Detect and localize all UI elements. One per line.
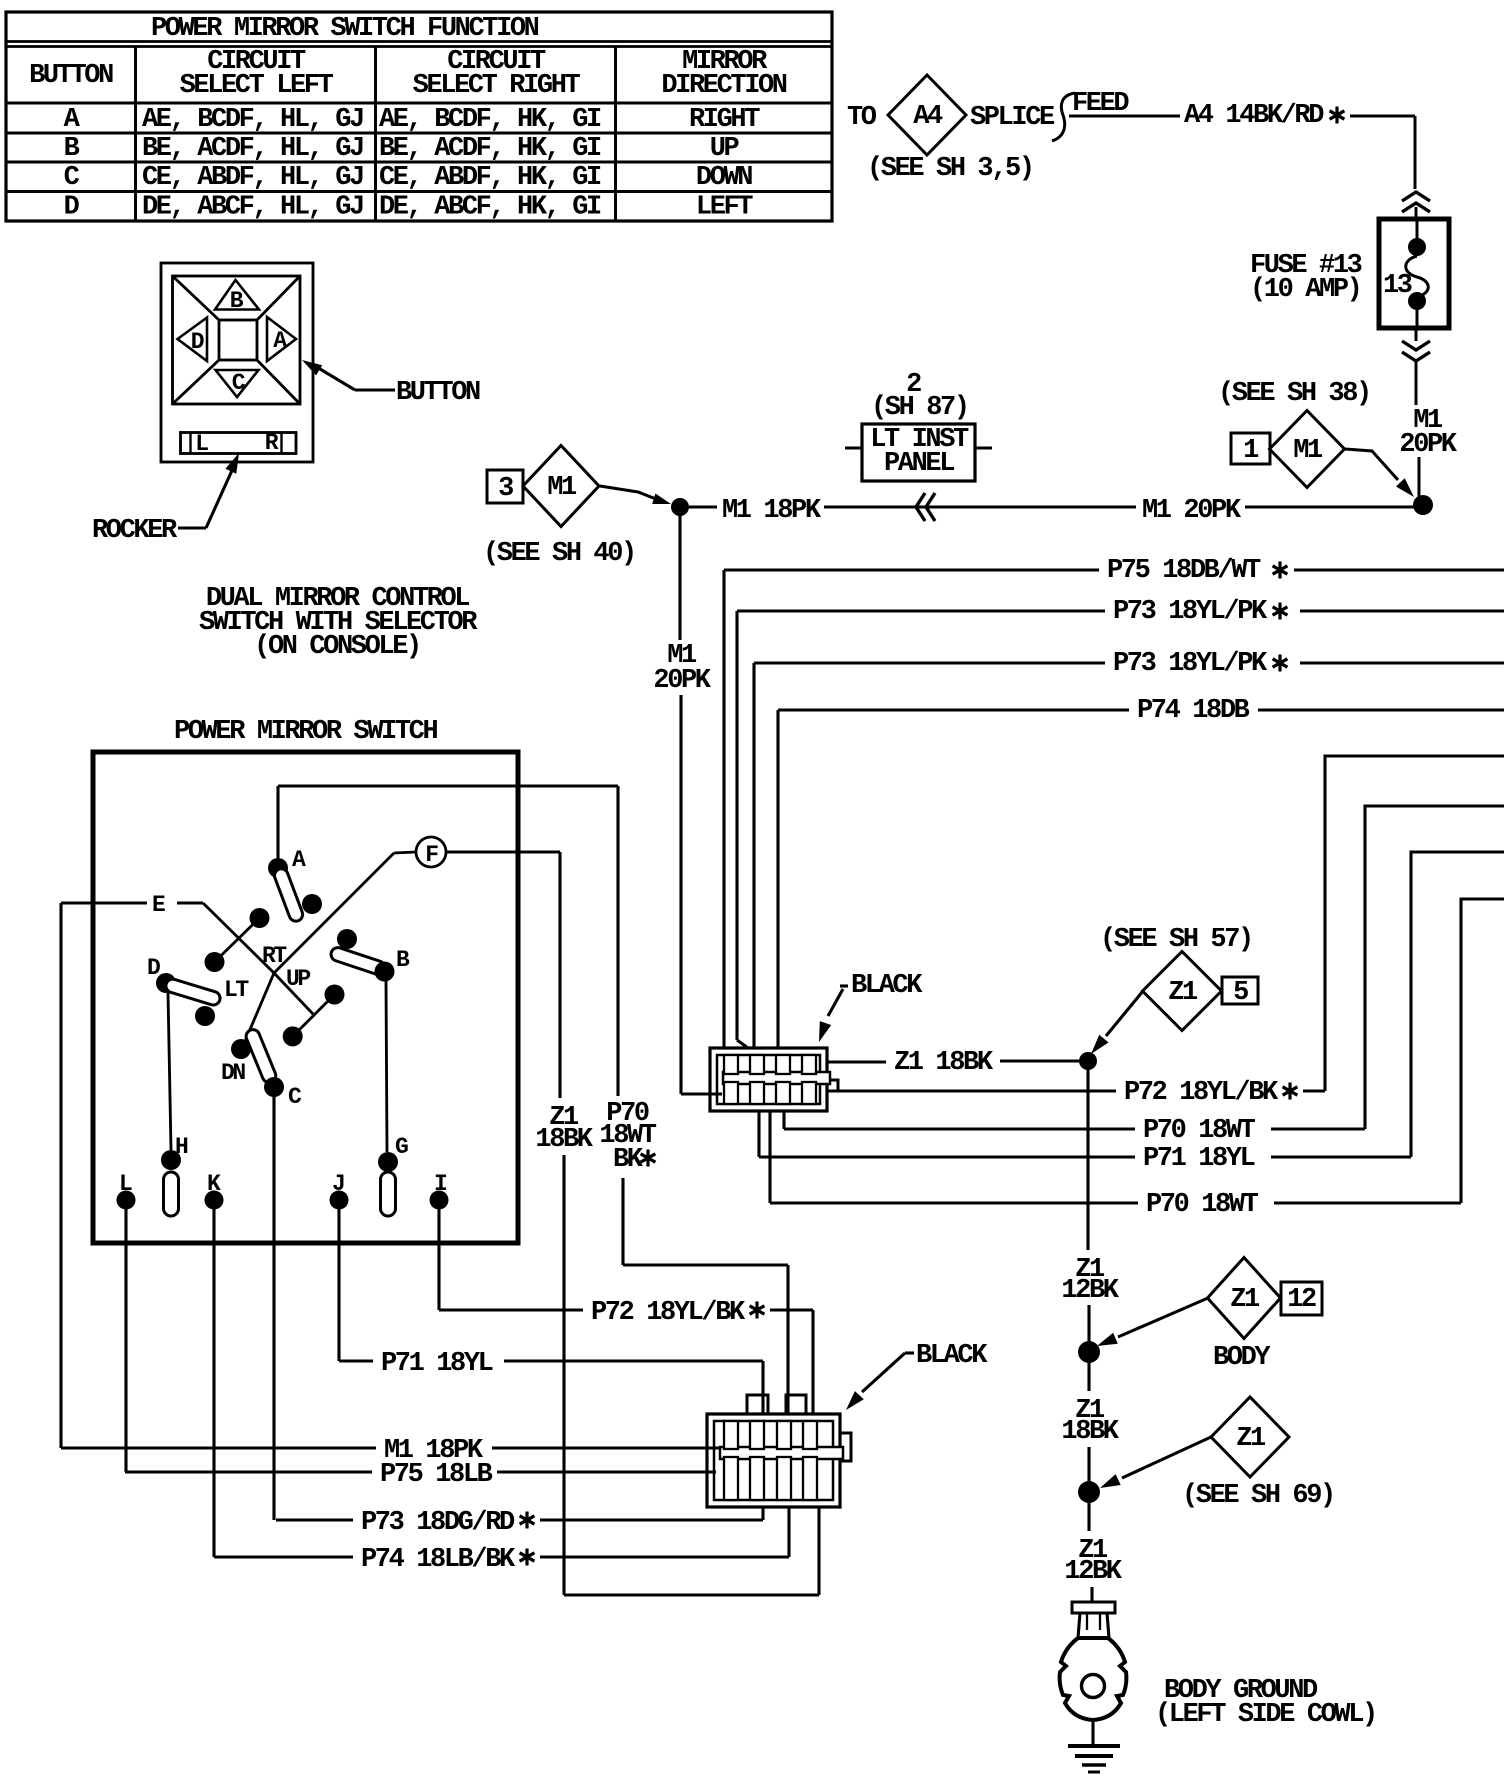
svg-text:E: E [152, 892, 165, 918]
svg-text:P70 18WT: P70 18WT [1146, 1190, 1259, 1220]
svg-text:DN: DN [221, 1060, 245, 1086]
svg-text:BUTTON: BUTTON [29, 61, 113, 91]
svg-text:A4 14BK/RD: A4 14BK/RD [1184, 101, 1324, 131]
svg-text:J: J [332, 1171, 344, 1197]
svg-text:BE, ACDF, HK, GI: BE, ACDF, HK, GI [379, 134, 601, 164]
svg-text:P71 18YL: P71 18YL [381, 1349, 493, 1379]
svg-text:DOWN: DOWN [696, 163, 752, 193]
svg-text:12BK: 12BK [1061, 1276, 1119, 1306]
svg-text:DE, ABCF, HL, GJ: DE, ABCF, HL, GJ [142, 193, 363, 223]
svg-text:13: 13 [1383, 271, 1412, 301]
svg-text:LEFT: LEFT [696, 193, 753, 223]
svg-text:20PK: 20PK [653, 666, 711, 696]
svg-text:H: H [175, 1134, 188, 1160]
svg-text:M1 18PK: M1 18PK [722, 496, 822, 526]
svg-text:Z1: Z1 [1230, 1285, 1260, 1315]
svg-text:P72 18YL/BK: P72 18YL/BK [1124, 1078, 1279, 1108]
svg-text:Z1: Z1 [1168, 978, 1198, 1008]
svg-text:LT: LT [224, 977, 249, 1003]
svg-text:ROCKER: ROCKER [92, 516, 178, 546]
svg-text:(SEE SH 38): (SEE SH 38) [1218, 379, 1370, 409]
svg-text:P74 18LB/BK: P74 18LB/BK [361, 1545, 516, 1575]
svg-text:P75 18DB/WT: P75 18DB/WT [1107, 556, 1261, 586]
svg-text:20PK: 20PK [1399, 430, 1457, 460]
svg-text:BE, ACDF, HL, GJ: BE, ACDF, HL, GJ [142, 134, 363, 164]
svg-text:CE, ABDF, HL, GJ: CE, ABDF, HL, GJ [142, 163, 363, 193]
svg-text:C: C [64, 163, 80, 193]
svg-text:I: I [434, 1171, 447, 1197]
svg-text:(LEFT SIDE COWL): (LEFT SIDE COWL) [1155, 1700, 1376, 1730]
svg-text:3: 3 [498, 474, 513, 504]
svg-text:D: D [191, 329, 204, 355]
svg-text:(SEE SH 40): (SEE SH 40) [483, 539, 635, 569]
svg-text:P70 18WT: P70 18WT [1143, 1116, 1256, 1146]
svg-text:AE, BCDF, HL, GJ: AE, BCDF, HL, GJ [142, 105, 363, 135]
svg-text:P73 18YL/PK: P73 18YL/PK [1113, 597, 1268, 627]
svg-text:BLACK: BLACK [851, 971, 923, 1001]
svg-text:RIGHT: RIGHT [689, 105, 760, 135]
svg-text:SELECT LEFT: SELECT LEFT [180, 71, 334, 101]
svg-text:POWER MIRROR SWITCH: POWER MIRROR SWITCH [174, 717, 437, 747]
svg-text:B: B [64, 134, 80, 164]
svg-text:(SEE SH 57): (SEE SH 57) [1100, 925, 1252, 955]
svg-text:A4: A4 [913, 102, 943, 132]
svg-text:SELECT RIGHT: SELECT RIGHT [413, 71, 581, 101]
svg-text:12BK: 12BK [1064, 1557, 1122, 1587]
svg-text:P71 18YL: P71 18YL [1143, 1144, 1255, 1174]
svg-text:UP: UP [286, 966, 310, 992]
svg-text:18BK: 18BK [1061, 1417, 1119, 1447]
svg-text:G: G [395, 1134, 408, 1160]
svg-text:CE, ABDF, HK, GI: CE, ABDF, HK, GI [379, 163, 601, 193]
svg-text:PANEL: PANEL [884, 449, 954, 479]
svg-text:BUTTON: BUTTON [396, 378, 480, 408]
svg-text:(10 AMP): (10 AMP) [1250, 275, 1360, 305]
svg-text:M1 20PK: M1 20PK [1142, 496, 1242, 526]
svg-text:D: D [64, 193, 80, 223]
svg-text:1: 1 [1243, 436, 1259, 466]
svg-text:(SH 87): (SH 87) [871, 393, 968, 423]
svg-text:P72 18YL/BK: P72 18YL/BK [591, 1298, 746, 1328]
svg-text:DE, ABCF, HK, GI: DE, ABCF, HK, GI [379, 193, 601, 223]
svg-text:Z1 18BK: Z1 18BK [894, 1048, 994, 1078]
svg-text:RT: RT [262, 943, 287, 969]
svg-text:(SEE SH 3,5): (SEE SH 3,5) [867, 154, 1033, 184]
svg-text:BK: BK [613, 1145, 644, 1175]
svg-text:AE, BCDF, HK, GI: AE, BCDF, HK, GI [379, 105, 601, 135]
svg-text:(ON CONSOLE): (ON CONSOLE) [254, 632, 420, 662]
svg-text:P73 18YL/PK: P73 18YL/PK [1113, 649, 1268, 679]
svg-text:12: 12 [1287, 1285, 1316, 1315]
svg-text:P75 18LB: P75 18LB [380, 1460, 493, 1490]
svg-text:18BK: 18BK [535, 1125, 593, 1155]
svg-text:P74 18DB: P74 18DB [1137, 696, 1250, 726]
svg-text:UP: UP [710, 134, 740, 164]
svg-text:BODY: BODY [1213, 1343, 1271, 1373]
svg-text:M1: M1 [547, 473, 577, 503]
svg-text:L: L [195, 431, 208, 457]
svg-text:BLACK: BLACK [916, 1341, 988, 1371]
svg-text:DIRECTION: DIRECTION [661, 71, 786, 101]
svg-text:5: 5 [1233, 978, 1248, 1008]
svg-text:Z1: Z1 [1236, 1424, 1266, 1454]
svg-text:F: F [425, 842, 438, 868]
svg-text:M1: M1 [1293, 436, 1323, 466]
svg-text:(SEE SH 69): (SEE SH 69) [1182, 1481, 1334, 1511]
svg-text:L: L [119, 1171, 132, 1197]
svg-text:TO: TO [847, 103, 877, 133]
svg-text:POWER MIRROR SWITCH FUNCTION: POWER MIRROR SWITCH FUNCTION [151, 14, 539, 44]
svg-text:P73 18DG/RD: P73 18DG/RD [361, 1508, 515, 1538]
svg-text:SPLICE: SPLICE [970, 103, 1055, 133]
